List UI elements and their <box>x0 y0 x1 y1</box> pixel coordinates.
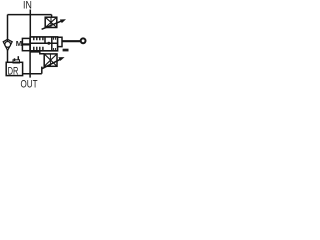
bypass valve throttle arcs <box>44 54 57 66</box>
bypass valve BV1 box <box>44 54 57 66</box>
heat exchanger fins bottom <box>34 47 43 51</box>
junction dot <box>47 42 50 45</box>
svg-text:OUT: OUT <box>21 79 38 91</box>
expansion valve adjust arrow <box>42 20 64 29</box>
svg-text:M: M <box>16 39 22 48</box>
wire manifold drop to expansion valve <box>51 15 53 18</box>
heat exchanger body <box>30 37 57 51</box>
heat exchanger fins top <box>34 37 43 40</box>
auto drain symbol <box>17 56 19 60</box>
small port block <box>63 49 69 52</box>
bypass valve adjust arrow <box>42 58 62 68</box>
fan motor circle <box>81 38 86 43</box>
wire IN drop <box>29 10 31 38</box>
drain box DR <box>6 62 22 75</box>
wire exchanger to OUT <box>29 51 31 78</box>
wire bypass top <box>30 52 44 54</box>
condenser bracket <box>58 37 62 46</box>
wire check valve to drain box <box>7 50 9 63</box>
check valve CV1 (diamond with ball) <box>3 39 12 50</box>
right cell fins <box>54 37 56 51</box>
wire bypass bottom drop <box>41 67 43 74</box>
heat exchanger divider <box>51 37 53 51</box>
expansion valve throttle arcs <box>45 17 57 27</box>
fan line <box>62 40 80 42</box>
wire bottom collector <box>23 73 42 75</box>
heat exchanger mid line <box>30 42 57 44</box>
expansion valve EV1 box <box>45 17 57 27</box>
wire left drop <box>7 15 9 41</box>
svg-text:DR: DR <box>8 66 19 78</box>
wire top manifold <box>8 14 52 16</box>
